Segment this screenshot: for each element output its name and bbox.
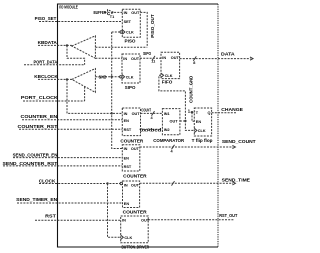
svg-text:SET: SET: [124, 20, 132, 24]
svg-text:OUT: OUT: [131, 57, 140, 61]
wire constant 1 to T: [191, 111, 195, 113]
COUNTER3 block: [123, 181, 140, 208]
svg-text:RST: RST: [124, 128, 132, 132]
wire COUNTER_RST input: [19, 128, 122, 130]
svg-text:GND: GND: [99, 74, 107, 79]
svg-text:SEND_COUNTER_EN: SEND_COUNTER_EN: [13, 152, 58, 157]
svg-text:DATA: DATA: [221, 52, 235, 57]
svg-text:1: 1: [188, 109, 191, 114]
svg-text:EN: EN: [124, 202, 130, 206]
svg-text:CLK: CLK: [165, 74, 173, 78]
vertical aux/clock wire: [112, 32, 123, 149]
bus slash SEND_TIME: [172, 181, 175, 186]
SIPO CLK wedge: [122, 75, 125, 79]
svg-text:Q: Q: [208, 111, 211, 115]
wire KBDATA jog down: [67, 45, 85, 64]
bus slash DATA: [193, 56, 196, 61]
wire KBCLOCK down to counter in row: [67, 79, 122, 113]
wire KBDATA input: [38, 44, 72, 46]
svg-text:IN: IN: [124, 147, 128, 151]
wire PISO_SET input: [39, 21, 122, 23]
svg-text:OUT: OUT: [131, 184, 140, 188]
FIFO block: [161, 52, 180, 78]
svg-text:COMPARATOR: COMPARATOR: [153, 138, 184, 143]
COUNTER2 block: [122, 145, 140, 171]
svg-text:IN: IN: [162, 56, 166, 60]
wire GND to SIPO CLK: [95, 76, 120, 78]
svg-text:OUT: OUT: [170, 120, 179, 124]
COUNTER3 IN bubble: [120, 182, 122, 184]
node on GND row: [111, 76, 113, 78]
svg-text:CHANGE: CHANGE: [221, 107, 243, 112]
I/O MODULE box right edge: [217, 4, 219, 247]
COUNTER1 block: [122, 108, 140, 136]
wire 0xAbcd constant to IN2: [140, 128, 163, 130]
svg-text:RST: RST: [124, 165, 132, 169]
svg-text:COUNT_GND: COUNT_GND: [189, 76, 194, 103]
T flip-flop CLK wedge: [194, 128, 197, 132]
wire RST_OUT output: [148, 219, 234, 221]
wire PISO OUT to data net: [140, 12, 147, 47]
wire COUNTER_EN input: [22, 119, 122, 121]
I/O MODULE enclosure box: [58, 4, 219, 247]
FIFO CLK wedge: [161, 73, 164, 77]
svg-text:T: T: [196, 111, 199, 115]
svg-text:IN2: IN2: [164, 128, 170, 132]
data tri-state buffer (KBDATA/PORT_DATA): [72, 36, 96, 59]
svg-text:0xAbcd: 0xAbcd: [140, 127, 162, 132]
wire SEND_TIME output: [140, 182, 233, 184]
svg-text:SEND_COUNT: SEND_COUNT: [222, 139, 256, 144]
svg-text:BUFFER: BUFFER: [94, 10, 107, 15]
svg-text:COUNTER: COUNTER: [123, 174, 146, 179]
svg-text:SEND_TIME: SEND_TIME: [222, 178, 250, 183]
svg-text:EN: EN: [196, 120, 202, 124]
svg-text:PORT_DATA: PORT_DATA: [34, 59, 58, 64]
svg-text:COUNTER_RST: COUNTER_RST: [18, 124, 58, 129]
node KBDATA junction: [66, 44, 68, 46]
wire PISO CLK from vertical: [112, 31, 120, 33]
svg-text:SIPO: SIPO: [143, 51, 152, 56]
svg-text:IN: IN: [124, 184, 128, 188]
svg-text:OUT: OUT: [132, 112, 141, 116]
buffer T1 symbol: [108, 10, 114, 16]
svg-text:8: 8: [193, 61, 195, 65]
COMPARATOR block: [162, 109, 180, 135]
PISO CLK wedge: [122, 30, 125, 34]
svg-text:T1: T1: [110, 15, 114, 19]
node CLOCK junction: [106, 182, 108, 184]
wire SEND_COUNTER_RST input: [3, 165, 122, 167]
wire SEND_COUNT output: [140, 146, 233, 148]
node T input junction: [191, 111, 193, 113]
svg-text:KBDATA: KBDATA: [38, 40, 57, 45]
svg-text:IN: IN: [122, 218, 126, 222]
svg-text:IN: IN: [123, 57, 127, 61]
svg-text:CLK: CLK: [198, 129, 206, 133]
wire CHANGE output: [212, 112, 237, 114]
svg-text:CLK: CLK: [126, 75, 134, 79]
svg-text:4: 4: [151, 116, 154, 120]
svg-text:4: 4: [171, 150, 174, 154]
SIPO CLK bubble: [120, 76, 122, 78]
svg-text:OUT: OUT: [131, 147, 140, 151]
BUTTON_DRIVER block: [121, 216, 149, 243]
wire SIPO OUT to FIFO IN: [140, 57, 161, 59]
SIPO block: [122, 54, 140, 83]
arrowhead DATA: [250, 57, 253, 60]
svg-text:CLK: CLK: [124, 236, 132, 240]
svg-text:RST_OUT: RST_OUT: [219, 213, 238, 218]
BUTTON_DRIVER CLK wedge: [121, 235, 124, 239]
svg-text:SEND_COUNTER_RST: SEND_COUNTER_RST: [3, 161, 58, 166]
wire SEND_TIMER_EN input: [17, 202, 123, 204]
node on counter-in row: [111, 112, 113, 114]
wire DATA output: [180, 58, 251, 60]
arrowhead SEND_TIME: [232, 182, 235, 185]
svg-text:T flip flop: T flip flop: [192, 138, 213, 143]
wire PORT_CLOCK riser: [84, 87, 86, 101]
svg-text:RST: RST: [45, 213, 56, 218]
T flip-flop block: [194, 108, 211, 136]
svg-text:SIPO: SIPO: [125, 85, 136, 90]
wire data buffer output: [95, 46, 147, 48]
svg-text:I/O MODULE: I/O MODULE: [59, 5, 78, 10]
bus slash SEND_COUNT: [172, 145, 175, 150]
wire to SIPO IN: [95, 57, 122, 59]
buffer T1 input wire: [105, 11, 123, 13]
svg-text:11: 11: [151, 60, 155, 64]
PISO block: [122, 9, 140, 37]
svg-text:COUNTER: COUNTER: [123, 209, 147, 214]
svg-text:OUT: OUT: [171, 56, 180, 60]
svg-text:CLOCK: CLOCK: [39, 179, 57, 184]
svg-text:BUTTON_DRIVER: BUTTON_DRIVER: [122, 245, 150, 250]
svg-text:PISO_SET: PISO_SET: [35, 16, 57, 21]
svg-text:CLK: CLK: [126, 31, 134, 35]
wire PORT_DATA input: [24, 64, 85, 66]
svg-text:EN: EN: [124, 119, 130, 123]
wire PORT_CLOCK input: [23, 100, 85, 102]
svg-text:PISO: PISO: [125, 39, 137, 44]
wire CLOCK input: [39, 183, 120, 185]
svg-text:SEND_TIMER_EN: SEND_TIMER_EN: [16, 197, 57, 202]
wire RST input: [35, 219, 121, 221]
svg-text:OUT: OUT: [131, 11, 140, 15]
svg-text:PORT_CLOCK: PORT_CLOCK: [21, 95, 59, 100]
svg-text:IN: IN: [124, 112, 128, 116]
arrowhead SEND_COUNT: [232, 145, 235, 148]
svg-text:KBCLOCK: KBCLOCK: [34, 74, 58, 79]
wire T to EN strap: [192, 112, 194, 121]
svg-text:FIFO: FIFO: [162, 80, 173, 85]
wire SEND_COUNTER_EN input: [13, 157, 122, 159]
svg-text:COUNTER_EN: COUNTER_EN: [21, 114, 58, 119]
node KBCLOCK junction: [66, 78, 68, 80]
svg-text:OUT: OUT: [141, 218, 150, 222]
wire COUNT to comparator IN1: [141, 112, 163, 114]
bus slash SIPO: [152, 56, 155, 61]
wire KBCLOCK input: [38, 78, 72, 80]
wire FIFO CLK from COUNT_GND net: [159, 75, 194, 130]
clock tri-state buffer (KBCLOCK/PORT_CLOCK): [72, 69, 96, 93]
svg-text:IN: IN: [124, 11, 128, 15]
PISO CLK bubble: [120, 31, 122, 33]
svg-text:IN1: IN1: [164, 112, 170, 116]
bus slash COUNT: [152, 111, 155, 116]
svg-text:EN: EN: [124, 157, 130, 161]
svg-text:COUNT: COUNT: [141, 108, 151, 113]
wire CLOCK down to button driver clk: [108, 184, 121, 238]
node COUNT_GND junction: [184, 120, 186, 122]
svg-text:PISO_OUT: PISO_OUT: [150, 14, 155, 38]
svg-text:COUNTER: COUNTER: [120, 138, 143, 143]
wire comparator OUT: [180, 120, 186, 122]
